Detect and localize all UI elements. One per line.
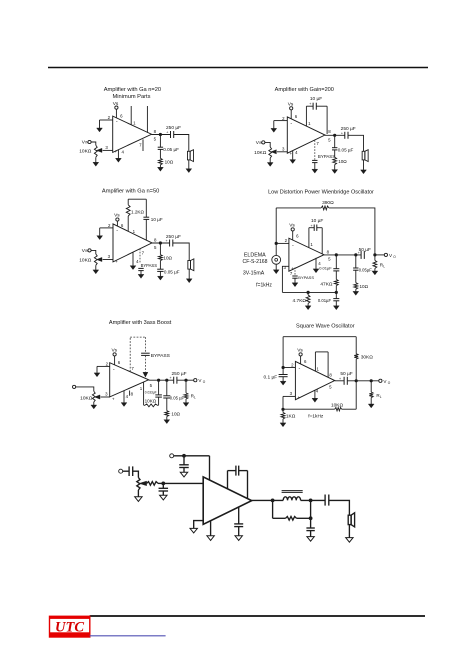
node input junction xyxy=(161,482,165,486)
wire to ground (C4) xyxy=(355,289,357,291)
capacitor 0.05uF (C1) xyxy=(158,146,163,148)
wire top to pin 2 node (C6) xyxy=(282,337,284,368)
ground chevron left xyxy=(190,528,197,533)
ground under resistor (C2) xyxy=(332,170,338,174)
node output junction (C3) xyxy=(159,241,162,244)
wire 47K to node B (C4) xyxy=(335,286,337,293)
ground under pot xyxy=(137,490,139,497)
wire VIN to pot (C3) xyxy=(91,250,96,254)
ground at pin 2 (C2) xyxy=(273,121,275,129)
resistor 1.2K gain (C3) xyxy=(127,199,129,205)
ground under wien shunt (C4) xyxy=(333,306,339,310)
wire cap to ground xyxy=(238,527,240,536)
pin 7 stub (C1) xyxy=(142,139,144,151)
wire bypass to ground (C4) xyxy=(294,278,296,283)
wien bottom wire (C4) xyxy=(282,291,336,293)
node output junction (C2) xyxy=(333,134,336,137)
wire supply down to op-amp top xyxy=(209,456,211,480)
capacitor 0.05uF (C2) xyxy=(332,147,337,149)
wire cap to Vo (C6) xyxy=(347,380,379,382)
svg-text:250 µF: 250 µF xyxy=(166,234,181,240)
wire cap to pot xyxy=(133,471,139,477)
speaker (C3) xyxy=(188,261,191,270)
op-amp U2 triangle xyxy=(287,117,325,153)
wire junction to resistor (C3) xyxy=(159,243,161,255)
svg-text:4.7KΩ: 4.7KΩ xyxy=(293,298,307,304)
wire feedback top left (C4) xyxy=(276,207,321,209)
svg-text:L: L xyxy=(380,395,382,399)
svg-text:0.05 µF: 0.05 µF xyxy=(338,147,354,152)
wire branch left xyxy=(273,517,286,519)
pin 7 stub dashed (C5) xyxy=(129,337,131,372)
svg-text:-: - xyxy=(116,119,118,125)
op-amp U7 triangle xyxy=(203,477,252,525)
ground supply bypass xyxy=(180,472,187,477)
svg-text:10Ω: 10Ω xyxy=(338,159,347,164)
pin 7 stub (C3) xyxy=(139,249,141,264)
wire node to pin 2 (C6) xyxy=(283,367,295,369)
svg-text:+: + xyxy=(166,131,168,135)
wire input to pot (C5) xyxy=(76,387,94,391)
capacitor BYPASS (C5) xyxy=(141,352,150,354)
wire coil to node xyxy=(301,499,326,501)
ground under speaker (C3) xyxy=(186,279,192,283)
svg-text:10Ω: 10Ω xyxy=(165,159,174,164)
wire output pin 5 (C1) xyxy=(152,134,171,136)
ground chevron speaker xyxy=(346,538,353,543)
wire cap to ground xyxy=(310,531,312,537)
wire cap to resistor (C2) xyxy=(334,150,336,157)
wire pin 2 to ground (C5) xyxy=(97,365,110,367)
wire Vs to pin 6 (C1) xyxy=(115,109,117,118)
svg-text:Amplifier with Gain=200: Amplifier with Gain=200 xyxy=(275,87,334,93)
bypass dashed down wire (C5) xyxy=(144,337,146,353)
capacitor 0.033uF feedback (C5) xyxy=(155,394,162,396)
inductor core lines xyxy=(282,490,303,492)
svg-text:10KΩ: 10KΩ xyxy=(145,398,157,403)
wire feedback top right (C4) xyxy=(329,208,375,255)
pin 8 stub (C5) xyxy=(129,391,131,396)
resistor damping xyxy=(286,517,297,521)
svg-text:0.05 µF: 0.05 µF xyxy=(170,396,185,401)
capacitor input coupling xyxy=(123,470,129,472)
svg-text:10KΩ: 10KΩ xyxy=(254,150,267,156)
footer blue rule xyxy=(90,635,166,637)
node RL junction (C5) xyxy=(184,379,187,382)
ground at pin 4 (C2) xyxy=(292,151,294,160)
ground at pin 4 (C3) xyxy=(132,252,134,266)
node output junction (C4) xyxy=(335,253,338,256)
resistor 10ohm (C2) xyxy=(333,157,337,164)
wire VIN to pot (C2) xyxy=(265,142,270,147)
svg-text:Amplifier with 3ass Boost: Amplifier with 3ass Boost xyxy=(109,320,172,326)
svg-text:ELDEMA: ELDEMA xyxy=(244,253,266,259)
op-amp U1 triangle xyxy=(113,116,152,152)
ground under pot (C2) xyxy=(269,158,271,163)
input terminal (C5) xyxy=(73,385,76,388)
op-amp U6 triangle xyxy=(295,361,334,399)
footer black rule xyxy=(90,615,425,617)
wire pin1 to cap (C2) xyxy=(306,105,313,107)
stub op-amp bottom 2 xyxy=(238,507,240,524)
wire gain loop top (C3) xyxy=(128,198,146,200)
wire output pin 5 (C3) xyxy=(152,242,170,244)
wire junction to wien cap (C4) xyxy=(335,255,337,269)
ground under bypass (C3) xyxy=(138,274,144,278)
bypass capacitor (C2) xyxy=(312,159,317,161)
feedback capacitor loop xyxy=(227,471,229,489)
wire 1K to ground (C6) xyxy=(282,419,284,423)
ground at pin 4 (C1) xyxy=(117,150,119,159)
ground under speaker (C2) xyxy=(361,170,367,174)
wire node to pin 2 (C4) xyxy=(276,242,289,244)
svg-text:Square Wave Oscillator: Square Wave Oscillator xyxy=(296,323,355,329)
svg-text:-: - xyxy=(299,365,301,371)
svg-text:10Ω: 10Ω xyxy=(163,255,172,260)
capacitor bottom stub xyxy=(234,523,243,525)
wire cap to pin 8 (C3) xyxy=(145,219,147,240)
wire resistor to cap (C3) xyxy=(159,261,161,270)
svg-text:50 µF: 50 µF xyxy=(340,371,352,377)
ground under bypass (C4) xyxy=(292,283,298,287)
svg-text:0.1 µF: 0.1 µF xyxy=(263,375,277,381)
wire cap to pin 8 (C4) xyxy=(317,227,322,229)
resistor series input xyxy=(147,482,158,486)
wire speaker to ground (C3) xyxy=(188,269,190,279)
ground under bypass (C2) xyxy=(312,169,318,173)
svg-text:250 µF: 250 µF xyxy=(171,371,186,377)
bypass capacitor (C3) xyxy=(138,267,143,269)
svg-text:Minimum Parts: Minimum Parts xyxy=(113,94,151,100)
UTC logo box xyxy=(50,616,90,637)
wire cap to speaker xyxy=(329,500,350,515)
node after coil xyxy=(309,499,313,503)
svg-text:-: - xyxy=(116,228,118,234)
svg-text:+: + xyxy=(358,251,360,255)
wire top to pin 2 node (C4) xyxy=(275,208,277,244)
wire zobel (C5) xyxy=(166,380,168,396)
supply terminal J2 xyxy=(170,454,174,458)
wire RL to ground (C5) xyxy=(185,399,187,403)
node 1K junction (C6) xyxy=(281,408,284,411)
wire Vs to pin 6 (C2) xyxy=(290,110,292,119)
svg-text:1KΩ: 1KΩ xyxy=(286,414,296,420)
svg-text:390Ω: 390Ω xyxy=(322,200,334,206)
wire node to lamp (C4) xyxy=(275,243,277,255)
wire Vs to pin 6 (C4) xyxy=(292,231,294,240)
wire bypass cap to ground (C3) xyxy=(140,271,142,275)
node feedback junction (C5) xyxy=(157,379,160,382)
ground at pin 2 (C1) xyxy=(99,120,101,128)
svg-text:L: L xyxy=(383,264,385,268)
wire speaker to ground (C1) xyxy=(188,160,190,169)
wire output to bottom (C6) xyxy=(355,381,357,409)
wire resistor to ground (C2) xyxy=(334,165,336,170)
ground under speaker (C1) xyxy=(186,169,192,173)
capacitor 0.05uF (C5) xyxy=(163,395,170,397)
bypass dashed top wire (C5) xyxy=(130,336,145,338)
pin 1 stub (C1) xyxy=(130,106,132,125)
wire VIN to pot (C1) xyxy=(91,142,96,145)
svg-text:Amplifier with Ga n=20: Amplifier with Ga n=20 xyxy=(104,87,161,93)
capacitor branch shunt xyxy=(310,518,312,528)
svg-text:47KΩ: 47KΩ xyxy=(320,281,333,287)
ground under pot (C3) xyxy=(95,265,97,270)
svg-text:+: + xyxy=(341,131,343,135)
svg-text:+: + xyxy=(115,259,118,264)
capacitor supply bypass xyxy=(183,456,185,465)
svg-text:0.05 µF: 0.05 µF xyxy=(163,147,179,152)
svg-text:+: + xyxy=(289,151,292,156)
wire resistor to node xyxy=(297,517,311,519)
wire pin 2 to ground (C1) xyxy=(100,119,113,121)
wire output pin 5 (C2) xyxy=(325,134,345,136)
svg-text:10KΩ: 10KΩ xyxy=(79,258,92,264)
capacitor input shunt xyxy=(162,483,164,488)
wire cap to ground (C6) xyxy=(282,377,284,382)
potentiometer input xyxy=(137,478,140,491)
ground at pin 4 (C4) xyxy=(315,258,317,269)
capacitor output coupling xyxy=(324,495,326,506)
capacitor 0.05uF (C4) xyxy=(355,255,357,268)
node output junction xyxy=(271,499,275,503)
svg-text:+: + xyxy=(170,376,172,380)
ground input shunt xyxy=(160,495,167,500)
wire cap to 10ohm (C5) xyxy=(166,398,168,411)
svg-text:10 µF: 10 µF xyxy=(310,96,322,102)
op-amp U5 triangle xyxy=(110,363,149,397)
svg-text:L: L xyxy=(194,395,196,399)
svg-text:-: - xyxy=(292,243,294,249)
ground under resistor (C1) xyxy=(158,167,164,171)
wire junction to zobel (C1) xyxy=(159,135,161,148)
wire cap to ground xyxy=(183,468,185,473)
capacitor wien series (C4) xyxy=(333,268,339,270)
inductor coil xyxy=(283,497,300,501)
wire RL to ground (C4) xyxy=(374,268,376,271)
node wien B (C4) xyxy=(335,291,338,294)
wire 4.7K to ground (C4) xyxy=(307,303,309,305)
svg-text:+: + xyxy=(166,239,168,243)
wire cap to 10ohm (C4) xyxy=(355,270,357,283)
wire supply to op-amp xyxy=(174,455,210,457)
svg-text:0.05µF: 0.05µF xyxy=(359,268,373,273)
wire op-amp left to ground xyxy=(194,521,204,529)
svg-text:BYPASS: BYPASS xyxy=(151,353,171,359)
wire output (C4) xyxy=(324,254,361,256)
wire resistor to node xyxy=(158,482,163,484)
wire wiper to pin 3 (C5) xyxy=(101,396,110,398)
wire Vs to pin 6 (C3) xyxy=(116,221,118,226)
wire pot wiper to pin 3 (C1) xyxy=(103,149,113,151)
wire pin 2 to ground (C2) xyxy=(274,120,288,122)
capacitor 0.05uF (C3) xyxy=(157,268,163,270)
svg-text:10Ω: 10Ω xyxy=(171,411,180,416)
ground under 10ohm (C5) xyxy=(164,420,170,424)
terminal Vo (C6) xyxy=(379,379,382,382)
svg-text:10 µF: 10 µF xyxy=(311,218,323,224)
top rule xyxy=(48,67,428,69)
wire output (C6) xyxy=(335,380,344,382)
svg-text:Amplifier with Ga n=50: Amplifier with Ga n=50 xyxy=(102,189,159,195)
svg-text:BYPASS: BYPASS xyxy=(318,154,335,159)
ground chevron stub 2 xyxy=(235,536,242,541)
svg-text:30KΩ: 30KΩ xyxy=(361,354,374,360)
svg-text:10 µF: 10 µF xyxy=(151,217,163,222)
pins 1-8 jumper (C6) xyxy=(314,352,316,371)
ground at zobel (C3) xyxy=(158,276,164,280)
ground under RL (C6) xyxy=(368,404,374,408)
svg-text:10Ω: 10Ω xyxy=(360,284,369,289)
wire junction to zobel (C2) xyxy=(334,135,336,147)
svg-text:+: + xyxy=(114,149,117,154)
node wien A (C4) xyxy=(307,291,310,294)
wire node up xyxy=(310,500,312,518)
resistor 10ohm (C4) xyxy=(354,283,358,290)
pin 1 stub (C5) xyxy=(143,382,145,405)
svg-text:f=1kHz: f=1kHz xyxy=(308,414,324,420)
speaker (C1) xyxy=(187,151,190,160)
op-amp U4 triangle xyxy=(289,238,324,271)
ground at pin 4 (C5) xyxy=(123,391,125,403)
wire resistor to pin 1 (C3) xyxy=(127,216,129,231)
wire 10ohm to ground (C5) xyxy=(166,417,168,420)
svg-text:3V-15mA: 3V-15mA xyxy=(243,271,265,277)
svg-text:f=1kHz: f=1kHz xyxy=(256,282,272,288)
pin 8 stub (C1) xyxy=(146,106,148,133)
wire wiper to pin 3 (C3) xyxy=(103,259,113,261)
wire feedback top (C6) xyxy=(283,336,356,338)
svg-text:50 µF: 50 µF xyxy=(359,247,371,253)
wire output (C5) xyxy=(149,379,174,381)
node zobel junction (C4) xyxy=(354,253,357,256)
ground under 0.1uF (C6) xyxy=(280,381,286,385)
wire lamp to ground (C4) xyxy=(275,264,277,270)
wire speaker to ground xyxy=(348,525,350,538)
wire cap to output (C5) xyxy=(158,380,160,395)
stub op-amp bottom 1 xyxy=(210,521,212,536)
svg-text:0.01µF: 0.01µF xyxy=(318,298,332,303)
pin 7 stub (C2) xyxy=(314,140,316,160)
wire cap to pin 8 (C2) xyxy=(316,105,327,107)
node RL junction (C6) xyxy=(370,379,373,382)
pin 3 wire (C4) xyxy=(282,266,289,292)
wire Vs to pin 6 (C6) xyxy=(300,356,302,364)
node feedback junction (C6) xyxy=(355,379,358,382)
svg-text:1.2KΩ: 1.2KΩ xyxy=(131,210,144,215)
input terminal J1 xyxy=(119,469,123,473)
wire cap to speaker (C3) xyxy=(173,243,189,261)
bypass capacitor (C4) xyxy=(292,275,297,277)
wire RL to ground (C6) xyxy=(370,398,372,404)
wire bypass cap to ground (C2) xyxy=(314,163,316,170)
node pin 2 junction (C4) xyxy=(275,242,278,245)
wire to Vo (C4) xyxy=(375,254,384,256)
node supply junction xyxy=(182,454,186,458)
svg-text:BYPASS: BYPASS xyxy=(141,263,158,268)
wire node to op-amp input xyxy=(163,482,203,484)
terminal Vo (C4) xyxy=(384,253,387,256)
ground under RL (C5) xyxy=(183,403,189,407)
op-amp U3 triangle xyxy=(113,224,152,262)
wire output xyxy=(252,499,284,501)
ground at pin 4 (C6) xyxy=(314,390,316,398)
ground at pin 2 (C3) xyxy=(99,228,101,236)
resistor 10ohm (C3) xyxy=(159,255,163,261)
wire cap to resistor (C1) xyxy=(159,149,161,158)
wire pin 3 down (C6) xyxy=(282,396,284,409)
svg-text:+: + xyxy=(309,102,311,106)
node output junction (C1) xyxy=(159,133,162,136)
svg-text:0.05 µF: 0.05 µF xyxy=(164,270,180,275)
svg-text:BYPASS: BYPASS xyxy=(298,275,314,280)
ground at pin 2 (C5) xyxy=(96,366,98,373)
node pin 2 (C6) xyxy=(282,366,285,369)
svg-text:10KΩ: 10KΩ xyxy=(79,149,92,155)
svg-text:CF-S-2168: CF-S-2168 xyxy=(243,259,268,265)
ground under RL (C4) xyxy=(372,271,378,275)
wire cap to 47K (C4) xyxy=(335,271,337,280)
svg-text:-: - xyxy=(113,366,115,372)
ground chevron branch xyxy=(307,537,314,542)
wire wiper to pin 3 (C2) xyxy=(277,151,287,153)
svg-text:0.01µF: 0.01µF xyxy=(319,265,332,270)
wire pin 2 to ground (C3) xyxy=(100,227,113,229)
ground under 4.7K (C4) xyxy=(305,306,311,310)
pin 1 stub (C2) xyxy=(305,106,307,126)
wire cap to ground (C3) xyxy=(159,271,161,276)
bottom wire with 10K (C6) xyxy=(283,408,335,410)
svg-text:+: + xyxy=(112,396,115,401)
node branch xyxy=(309,516,313,520)
ground under pot (C5) xyxy=(93,402,95,405)
pin 3 wire (C6) xyxy=(283,395,295,397)
pin 7 stub (C4) xyxy=(294,267,296,275)
wire Vs to pin 6 (C5) xyxy=(114,356,116,365)
svg-text:10KΩ: 10KΩ xyxy=(331,402,344,408)
resistor 10ohm (C5) xyxy=(165,411,169,417)
svg-text:+: + xyxy=(298,395,301,400)
wire 10K to cap (C5) xyxy=(158,397,160,405)
wire cap to ground xyxy=(162,491,164,495)
speaker output xyxy=(348,515,351,524)
wire cap to speaker (C1) xyxy=(174,135,189,152)
svg-text:+: + xyxy=(339,377,341,381)
ground under 10ohm (C4) xyxy=(353,291,359,295)
wire cap to speaker (C2) xyxy=(348,135,364,151)
svg-text:Low Distortion Power Wienbridg: Low Distortion Power Wienbridge Oscillat… xyxy=(268,190,374,196)
wire cap to Vo (C5) xyxy=(177,379,194,381)
speaker (C2) xyxy=(362,151,365,160)
ground under lamp (C4) xyxy=(273,270,279,274)
ground chevron stub 1 xyxy=(207,536,214,541)
ground under pot (C1) xyxy=(95,157,97,162)
wire cap to ground (C4) xyxy=(335,301,337,306)
resistor 10ohm (C1) xyxy=(159,158,163,165)
wire resistor to ground (C1) xyxy=(159,165,161,168)
svg-text:10KΩ: 10KΩ xyxy=(80,395,93,401)
wire speaker to ground (C2) xyxy=(363,160,365,170)
svg-text:0.033µF: 0.033µF xyxy=(145,390,157,394)
svg-text:-: - xyxy=(290,121,292,127)
terminal Vo (C5) xyxy=(194,379,197,382)
node output post-cap (C4) xyxy=(373,253,376,256)
node zobel junction (C5) xyxy=(165,379,168,382)
capacitor 10uF gain (C3) xyxy=(143,216,149,218)
svg-text:UTC: UTC xyxy=(55,620,84,636)
ground under 1K (C6) xyxy=(280,423,286,427)
pin 1 stub (C4) xyxy=(308,228,310,248)
